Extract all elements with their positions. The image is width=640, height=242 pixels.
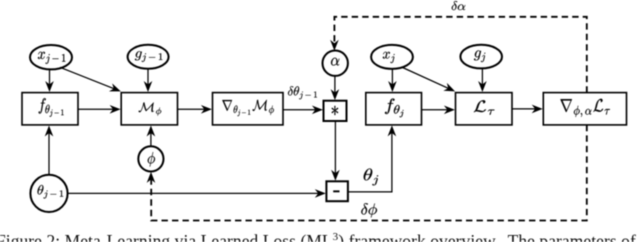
label delta phi bbox=[361, 203, 377, 217]
wire theta_j-1 to subtract bbox=[68, 192, 320, 194]
node x_j bbox=[371, 45, 413, 69]
dashed delta alpha feedback bbox=[334, 17, 586, 93]
box grad L_tau bbox=[543, 93, 626, 125]
wire g_j-1 to M bbox=[147, 69, 149, 86]
node theta_j-1 bbox=[30, 175, 67, 212]
label theta_j bbox=[364, 169, 379, 186]
box f_theta_j-1 bbox=[22, 93, 78, 125]
box f_theta_j bbox=[366, 93, 422, 125]
op box multiply bbox=[324, 101, 347, 121]
label delta alpha bbox=[452, 1, 466, 10]
label delta theta_j-1 bbox=[288, 86, 317, 99]
label minus bbox=[333, 190, 339, 192]
label g_j bbox=[474, 50, 485, 62]
op box subtract bbox=[326, 181, 348, 201]
node g_j bbox=[460, 45, 502, 69]
node g_j-1 bbox=[128, 45, 169, 69]
label theta_j-1 bbox=[38, 185, 64, 198]
label phi bbox=[148, 152, 155, 167]
node phi bbox=[138, 146, 163, 171]
wire x_j-1 to M diagonal bbox=[60, 67, 115, 89]
wire subtract to f_theta_j feedback bbox=[348, 129, 392, 192]
label x_j-1 bbox=[38, 52, 66, 64]
wire x_j to L diagonal bbox=[402, 67, 450, 89]
wire M to gradM bbox=[178, 108, 206, 110]
wire f_theta_j to L bbox=[422, 109, 449, 111]
wire x_j-1 to f bbox=[49, 69, 51, 86]
node alpha bbox=[323, 51, 348, 76]
label grad L_tau bbox=[560, 99, 610, 117]
wire gradM to multiply bbox=[283, 109, 317, 111]
label x_j bbox=[383, 52, 395, 63]
box M_phi bbox=[121, 93, 177, 125]
wire theta_j-1 to f bbox=[48, 132, 50, 175]
wire x_j to f_theta_j bbox=[391, 69, 393, 86]
label M_phi bbox=[139, 102, 162, 115]
label alpha bbox=[331, 58, 339, 66]
label L_tau bbox=[474, 100, 495, 114]
wire f to M bbox=[78, 108, 115, 110]
wire alpha to multiply bbox=[334, 76, 336, 94]
box L_tau bbox=[456, 93, 513, 125]
caption bbox=[0, 231, 640, 242]
wire g_j to L bbox=[481, 68, 483, 86]
wire phi to M bbox=[150, 132, 152, 147]
label f_theta_j bbox=[385, 99, 404, 118]
box grad M_phi bbox=[213, 93, 284, 125]
wire multiply to subtract bbox=[334, 121, 336, 175]
label grad M_phi bbox=[222, 100, 274, 116]
wire L to gradL bbox=[512, 108, 537, 110]
label g_j-1 bbox=[135, 51, 163, 62]
dashed delta phi feedback bbox=[151, 125, 587, 221]
node x_j-1 bbox=[30, 45, 72, 69]
label f_theta_j-1 bbox=[39, 98, 64, 117]
label asterisk bbox=[332, 106, 338, 115]
